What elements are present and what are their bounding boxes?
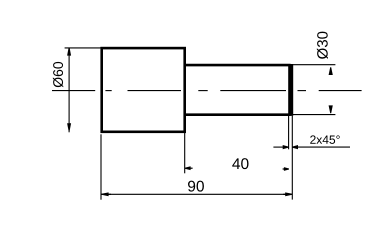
overall dimension line: [102, 193, 293, 195]
40 length label: [232, 158, 248, 169]
chamfer dim right arrow (points left): [292, 145, 298, 149]
centerline (axis): [52, 90, 362, 92]
overall length label 90: [188, 181, 204, 192]
overall length left extension line: [100, 134, 102, 199]
chamfer label 2x45deg: [310, 135, 340, 144]
dia 30 label (rotated): [317, 32, 328, 59]
small cylinder top edge: [186, 64, 291, 67]
Ø60 dim arrow down: [67, 123, 71, 130]
Ø60 top extension line: [65, 47, 101, 49]
large cylinder body Ø60: [102, 48, 185, 132]
chamfer dim left arrow (points right): [283, 145, 289, 149]
chamfer edge + end face (solid blob): [288, 64, 293, 116]
overall dim right arrow: [285, 192, 292, 196]
chamfer dimension line left part: [273, 146, 288, 148]
chamfer start extension line: [288, 116, 290, 149]
Ø30 dim arrow up: [329, 67, 333, 75]
small cylinder bottom edge: [186, 113, 291, 116]
Ø30 top extension line: [291, 64, 335, 66]
Ø30 dim arrow down: [329, 105, 333, 113]
dia 60 label (rotated): [53, 62, 63, 87]
Ø60 dimension line: [68, 48, 70, 132]
chamfer dimension line right part: [292, 146, 350, 148]
40 dim right arrow: [284, 167, 289, 171]
Ø30 bottom extension line: [291, 114, 335, 116]
40 dim left arrow: [185, 166, 191, 170]
end face extension line: [291, 116, 293, 200]
shoulder extension line: [184, 133, 186, 173]
Ø60 dim arrow up: [67, 48, 71, 55]
overall dim left arrow: [102, 192, 109, 196]
